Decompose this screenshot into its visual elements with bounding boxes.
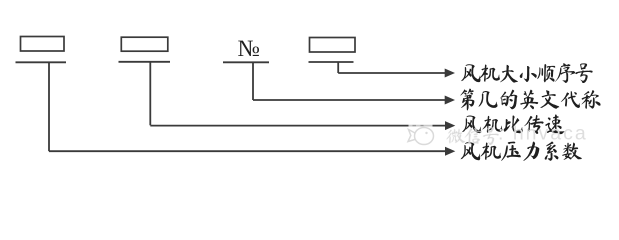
label 3: fan specific speed (风机比传速) xyxy=(462,114,564,134)
wire from box 1 down (vertical) xyxy=(48,62,50,151)
wire to label 3 (specific speed) (horizontal) xyxy=(150,125,446,127)
fan model designation diagram xyxy=(0,0,619,181)
wire from box 2 down (vertical) xyxy=(149,62,151,126)
underline under No. symbol xyxy=(223,61,269,63)
label 1: fan size sequence number (风机大小顺序号) xyxy=(461,63,592,83)
label 4: fan pressure coefficient (风机压力系数) xyxy=(461,141,582,160)
wire from box 4 down (vertical) xyxy=(337,62,339,73)
label 2: english designation (第几的英文代称) xyxy=(460,89,600,111)
box 4 (fourth code box) xyxy=(310,38,356,53)
wire to label 2 (english designation) (horizontal) xyxy=(253,99,446,101)
faint wire remnants under watermark xyxy=(413,125,424,127)
underline under box 1 xyxy=(16,61,67,63)
wire to label 4 (pressure coefficient) (horizontal) xyxy=(49,150,446,152)
arrowhead 3 xyxy=(445,121,455,130)
watermark icon (little sketch mascot) xyxy=(408,128,434,145)
wire from No. symbol down (vertical) xyxy=(252,62,254,100)
arrowhead 2 xyxy=(445,96,455,105)
underline under box 2 xyxy=(119,61,171,63)
arrowhead 4 xyxy=(445,147,455,156)
underline under box 4 xyxy=(309,61,354,63)
watermark background patch xyxy=(409,119,433,147)
box 2 (second code box) xyxy=(121,37,168,51)
box 1 (first code box) xyxy=(21,37,65,52)
arrowhead 1 xyxy=(445,69,455,78)
wire to label 1 (fan size number) (horizontal) xyxy=(338,72,445,74)
No. symbol (machine number) xyxy=(238,41,259,56)
watermark text: weixin id xyxy=(446,127,498,145)
svg-text:: hnvaca: : hnvaca xyxy=(498,123,588,145)
